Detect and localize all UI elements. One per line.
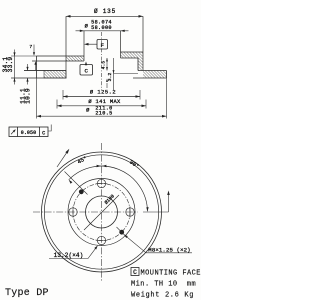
M8 hole NW radial tick / 45deg extension (65, 172, 88, 195)
svg-text:Ø 125.2: Ø 125.2 (90, 88, 116, 95)
disc outline: left ring bottom (11, 77, 67, 79)
svg-text:Ø100: Ø100 (103, 193, 116, 206)
angular dimension arc (45deg / 90deg) (69, 166, 148, 211)
M8 hole SE radial tick (117, 227, 128, 238)
right flange top (121, 51, 144, 53)
svg-text:M8×1.25 (×2): M8×1.25 (×2) (148, 246, 190, 253)
90deg extension line and tangent arrow (143, 211, 169, 213)
dimension Ø135 (66, 8, 143, 17)
disc outline: right OD edge (166, 71, 168, 79)
svg-text:210.5: 210.5 (95, 111, 112, 117)
dimension Ø211.0/210.5 (outer diameter) (37, 78, 167, 119)
svg-text:Min. TH 10 mm: Min. TH 10 mm (131, 280, 196, 288)
hole E cross tick (129, 206, 131, 217)
disc outline left: flange bottom (32, 60, 84, 62)
svg-text:Ø: Ø (85, 23, 89, 30)
svg-text:Ø 135: Ø 135 (94, 8, 116, 15)
dimension 11.1/10.9 disc thickness (20, 64, 44, 104)
disc outline: left ring top (24, 70, 66, 72)
right flange hatch (121, 52, 144, 58)
arc arrows at top centerline (97, 165, 101, 167)
svg-text:4.5: 4.5 (100, 61, 106, 70)
svg-text:C: C (84, 68, 88, 75)
left flange hatch (66, 56, 84, 61)
hole N cross tick (96, 183, 107, 185)
bore edge line left (83, 31, 85, 61)
bolt circle Ø100 leader (84, 195, 119, 230)
dimension Ø141 MAX (57, 98, 146, 109)
disc outline: left OD edge (36, 56, 38, 78)
datum feature symbol F (84, 40, 108, 50)
dimension 4.5 (hat depth) (100, 58, 108, 71)
bolt hole S (97, 236, 105, 244)
dimension 3.2 (recess step) (106, 58, 138, 90)
extension line right (hat edge) (142, 16, 144, 70)
svg-text:7: 7 (29, 44, 32, 50)
vertical centerline (101, 143, 103, 281)
leader arrow to disc OD (57, 152, 67, 167)
bore circle (86, 196, 118, 228)
arc arrow E end (146, 207, 148, 211)
hat wall inner edge (137, 58, 139, 71)
dimension 7 (29, 44, 36, 70)
bolt hole N (97, 179, 105, 187)
M8 thread hole NW (79, 189, 84, 194)
svg-text:MOUNTING FACE: MOUNTING FACE (141, 269, 201, 277)
bolt hole W (69, 208, 77, 216)
dimension Ø125.2 (63, 88, 140, 99)
datum C symbol (mounting face) (80, 61, 93, 75)
svg-text:F: F (101, 42, 105, 49)
ring bottom right (133, 77, 167, 79)
hat circle (68, 179, 135, 246)
svg-text:Weight 2.6 Kg: Weight 2.6 Kg (131, 291, 194, 299)
label 13.2 (x4) bolt hole diameter (49, 245, 98, 259)
svg-text:3.2: 3.2 (107, 73, 113, 82)
horizontal centerline (33, 211, 138, 213)
svg-text:Ø 141 MAX: Ø 141 MAX (88, 98, 121, 105)
feature control frame: runout 0.050 C (9, 125, 51, 137)
svg-text:58.000: 58.000 (91, 25, 112, 31)
mounting face note (131, 268, 201, 278)
right ring hatch (143, 71, 167, 79)
svg-text:C: C (133, 269, 137, 276)
hole W cross tick (72, 206, 74, 217)
section axis centerline (101, 32, 103, 90)
left ring hatch (44, 71, 66, 79)
ring top right (138, 70, 167, 72)
arc arrow NW end (69, 180, 73, 184)
disc outline left: flange top (37, 55, 85, 57)
label M8x1.25 (x2) (124, 234, 192, 253)
dimension Ø58.074/58.000 (center bore) (76, 20, 129, 32)
hole S cross tick (96, 240, 107, 242)
svg-text:C: C (42, 130, 45, 136)
svg-text:Ø: Ø (86, 107, 90, 114)
hat wall hatch (138, 58, 143, 71)
outer chamfer circle (44, 155, 158, 269)
svg-text:10.9: 10.9 (25, 88, 32, 104)
dimension 34.1/33.9 overall height (2, 50, 37, 85)
bolt hole E (126, 208, 134, 216)
M8 thread hole SE (119, 230, 124, 235)
svg-text:Type DP: Type DP (5, 288, 49, 299)
extension line left (hat edge) (65, 16, 67, 78)
right flange bottom (121, 57, 139, 59)
bore edge line right (120, 31, 122, 58)
outer circle (42, 152, 162, 272)
svg-text:13.2(×4): 13.2(×4) (54, 252, 84, 259)
svg-text:33.9: 33.9 (7, 57, 14, 73)
bolt circle Ø100 (dash-dot) (73, 184, 130, 241)
svg-text:0.050: 0.050 (21, 130, 37, 136)
